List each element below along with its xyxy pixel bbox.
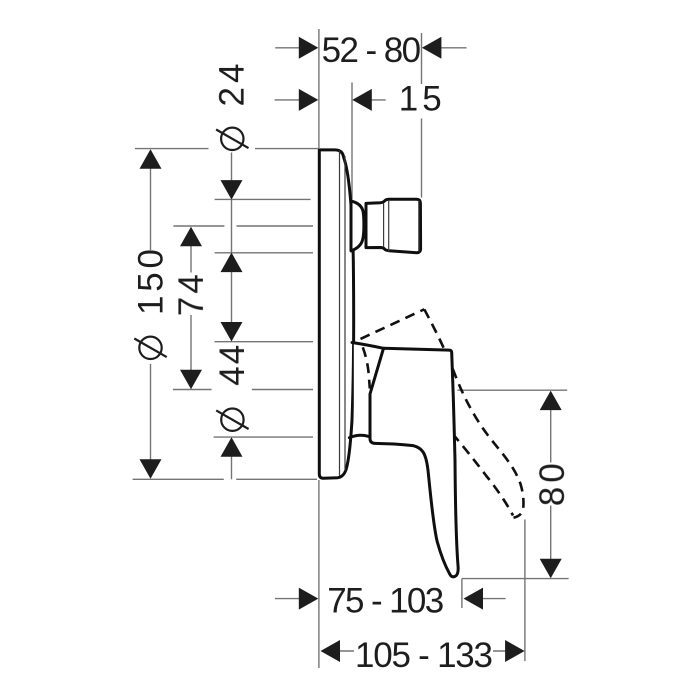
dimension 105-133 lines (340, 650, 506, 652)
dimension D150 line (150, 168, 152, 460)
wire blade-tip extension line (461, 579, 463, 608)
wire phantom-tip extension line (524, 520, 526, 662)
diverter knob step line 1 (383, 204, 385, 248)
escutcheon plate inner edge line 1 (339, 151, 341, 476)
dimension 75-103 right arrow (464, 588, 484, 610)
handle collar top edge (352, 343, 384, 349)
wire plate-face extension line (351, 83, 353, 200)
handle lever body and blade (370, 348, 458, 577)
wire wall extension line upper (318, 29, 320, 148)
dimension 105-133 right arrow (505, 640, 524, 662)
dimension D150 bottom arrow (140, 459, 162, 479)
diverter knob step line 2 (388, 200, 390, 252)
wire handle-axis extension line (173, 389, 313, 391)
dimension D24 diameter symbol (221, 128, 243, 150)
wire plate-bottom extension line (133, 478, 317, 480)
svg-text:105 - 133: 105 - 133 (355, 636, 493, 675)
dimension 52-80 left arrow (299, 37, 319, 59)
wire hub-top extension line (215, 341, 314, 343)
dimension D150 diameter symbol (139, 337, 161, 359)
dimension 74 top arrow (180, 227, 202, 247)
dimension 80 line (550, 410, 552, 560)
escutcheon plate outline (319, 150, 353, 478)
diverter knob face inner line (418, 201, 420, 252)
wire knob-face extension line (421, 33, 423, 198)
dimension D44 top arrow (221, 322, 243, 342)
dimension 80 top arrow (540, 391, 562, 411)
dimension D150 top arrow (140, 149, 162, 169)
dimension D24 bottom arrow (221, 253, 243, 273)
svg-text:1 5: 1 5 (399, 79, 442, 118)
wire knob-axis extension line (173, 225, 313, 227)
phantom handle right edge dashed (424, 309, 523, 518)
dimension D24 line (231, 153, 233, 323)
dimension 52-80 lines (275, 47, 466, 49)
dimension 52-80 right arrow (422, 37, 442, 59)
wire knob-bottom extension line (215, 252, 313, 254)
dimension 75-103 left arrow (299, 588, 319, 610)
wire knob-top extension line (215, 198, 311, 200)
diverter knob body (366, 199, 421, 253)
dimension D44 tail lower (231, 457, 233, 480)
wire wall extension line lower (318, 480, 320, 668)
svg-text:75 - 103: 75 - 103 (327, 581, 444, 620)
dimension 15 lines (275, 99, 386, 101)
phantom handle top edge dashed (361, 309, 425, 339)
handle collar fill (354, 343, 384, 441)
svg-text:52 - 80: 52 - 80 (322, 31, 422, 70)
dimension 74 bottom arrow (180, 370, 202, 390)
phantom handle lower edge dashed (452, 434, 513, 516)
dimension 15 right arrow (352, 89, 372, 111)
wire handle-axis right extension line (457, 389, 567, 391)
dimension D24 top arrow (221, 180, 243, 200)
escutcheon plate inner edge line 2 (344, 156, 346, 471)
wire plate-top extension line (135, 148, 319, 150)
wire hub-bottom extension line (214, 436, 313, 438)
phantom handle lower-left edge dashed (363, 347, 370, 388)
dimension D44 bottom arrow (221, 437, 243, 457)
dimension 105-133 left arrow (321, 640, 341, 662)
dimension 15 left arrow (299, 89, 319, 111)
dimension 74 line (190, 246, 192, 371)
svg-text:150: 150 (132, 249, 171, 315)
dimension D44 diameter symbol (221, 409, 243, 431)
dimension 75-103 lines (275, 598, 506, 600)
wire tip-level right extension line (462, 578, 569, 580)
handle collar bottom edge (349, 435, 368, 437)
diverter knob neck (351, 201, 364, 251)
dimension 80 bottom arrow (540, 559, 562, 579)
